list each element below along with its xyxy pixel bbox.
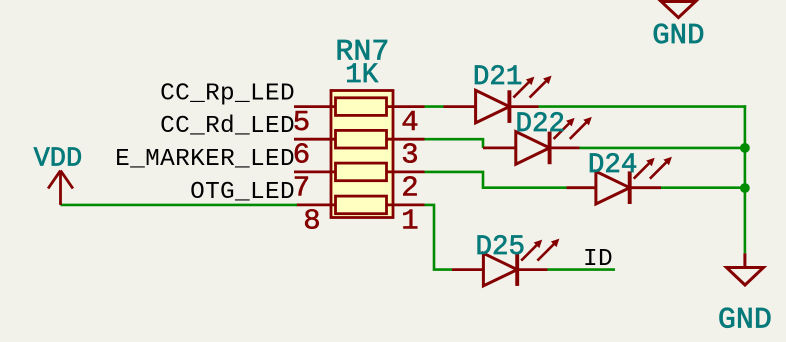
svg-text:CC_Rp_LED: CC_Rp_LED (160, 80, 295, 107)
svg-text:4: 4 (401, 106, 418, 139)
svg-text:1: 1 (401, 204, 418, 237)
svg-text:1K: 1K (345, 60, 379, 91)
svg-text:ID: ID (583, 246, 613, 273)
svg-text:CC_Rd_LED: CC_Rd_LED (160, 113, 295, 140)
svg-text:D24: D24 (588, 150, 638, 181)
svg-text:E_MARKER_LED: E_MARKER_LED (115, 146, 295, 173)
svg-text:GND: GND (652, 19, 704, 52)
svg-text:D25: D25 (475, 232, 525, 263)
svg-text:OTG_LED: OTG_LED (190, 179, 295, 206)
svg-text:8: 8 (303, 204, 320, 237)
svg-text:6: 6 (293, 139, 310, 172)
svg-text:3: 3 (401, 139, 418, 172)
svg-text:5: 5 (293, 106, 310, 139)
svg-text:2: 2 (401, 171, 418, 204)
svg-text:D22: D22 (515, 109, 565, 140)
svg-text:VDD: VDD (34, 144, 83, 174)
svg-text:GND: GND (718, 303, 772, 337)
svg-text:7: 7 (293, 171, 310, 204)
svg-text:D21: D21 (473, 62, 523, 93)
